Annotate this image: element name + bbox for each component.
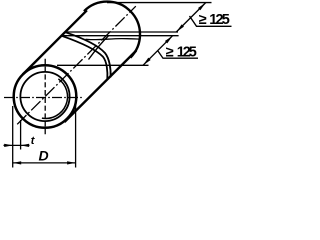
front face outer circle (pipe OD) [14,65,77,128]
inner bevel arc inside bore (right/bottom) [42,79,68,119]
extension line from front pipe end [57,64,149,66]
vertical dashed centerline of front face [44,59,46,135]
dimension line (top >=125) [176,3,205,32]
pipe axis dash-dot centerline (45 deg) [17,6,136,124]
extension line from far pipe end [107,2,212,4]
wall thickness t: inner extension line [20,120,22,150]
t dimension line with outside arrows [4,144,30,146]
lower-right silhouette line of pipe body [65,51,137,123]
arrowhead down-left at L4 [143,58,151,66]
dimension line (bottom >=125) [143,36,173,66]
svg-text:≥: ≥ [199,12,207,28]
girth weld seam upper edge arc [65,32,110,77]
girth weld seam lower edge arc [62,36,108,80]
arrowhead up-right at L1 [198,3,206,11]
svg-text:125: 125 [177,44,197,60]
leader line of top >=125 label [190,16,232,26]
far end outer arc of pipe [84,2,140,58]
extension line from weld lower edge [62,35,179,37]
inner bore edge curve toward far end [86,39,140,40]
arrowhead down-left at L2 [176,24,184,32]
svg-text:D: D [39,148,49,164]
inner edge curve crossing weld zone [89,36,109,60]
svg-text:125: 125 [209,12,230,28]
technical drawing: oblique pictorial of welded pipe joint with D, t and two >=125 dimensions [0,0,232,174]
svg-text:≥: ≥ [166,44,174,60]
front face inner circle (pipe bore) [20,72,69,121]
horizontal dash-dot centerline of front face [4,97,84,99]
D dimension line with arrows [13,162,76,164]
leader line of bottom >=125 label [158,51,198,59]
extension line from weld upper edge [65,31,178,33]
arrowhead up-right at L3 [165,36,173,44]
wall thickness t: left extension line [12,106,14,168]
upper-left silhouette line of pipe body [23,10,87,74]
diameter D: right extension line [75,106,77,168]
